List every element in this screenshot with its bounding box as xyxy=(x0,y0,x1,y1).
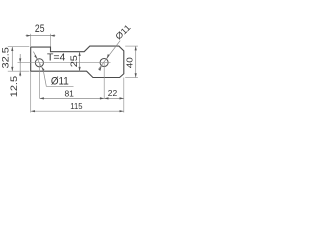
svg-text:81: 81 xyxy=(64,89,74,99)
extension line part right edge down xyxy=(123,78,125,113)
svg-text:T=4: T=4 xyxy=(47,51,66,63)
leader right hole arrow lower xyxy=(99,66,102,71)
extension line right hole down xyxy=(103,63,105,99)
svg-text:40: 40 xyxy=(125,57,134,68)
leader left hole arrow upper xyxy=(34,55,37,59)
svg-text:Ø11: Ø11 xyxy=(51,76,69,88)
extension line part left edge down xyxy=(30,71,32,112)
svg-text:25: 25 xyxy=(70,55,80,68)
hole left xyxy=(35,59,43,67)
dim 81 bottom: dimension line with arrows xyxy=(40,97,105,99)
svg-text:115: 115 xyxy=(70,102,83,111)
dim 25 top: dimension line with outside arrows xyxy=(26,35,56,37)
leader left hole arrow lower xyxy=(42,67,45,71)
extension line left hole down xyxy=(39,63,41,99)
svg-text:12.5: 12.5 xyxy=(9,76,19,98)
dim 115 bottom: dimension line with arrows xyxy=(31,110,124,112)
part outline xyxy=(31,46,124,77)
leader right hole arrow upper xyxy=(107,54,110,59)
svg-text:22: 22 xyxy=(108,88,118,98)
dim 12.5 left: dimension line with outside arrows xyxy=(19,54,21,76)
leader line left hole xyxy=(33,52,73,87)
dim 25 top: extension lines xyxy=(30,34,32,46)
leader line right hole xyxy=(98,41,120,70)
dim 40 right: dimension line with arrows xyxy=(135,46,137,77)
dim 40 right: extension lines xyxy=(125,45,138,47)
dim 32.5 left: dimension line with arrows xyxy=(11,47,13,71)
svg-text:Ø11: Ø11 xyxy=(114,23,133,42)
dim 32.5 left: extension lines xyxy=(8,46,30,48)
hole right xyxy=(100,58,108,66)
svg-text:32.5: 32.5 xyxy=(1,47,11,69)
dim 25 middle: dimension line with arrows xyxy=(79,52,81,71)
centerline through holes xyxy=(18,62,111,64)
dim 22 bottom: dimension line with arrows xyxy=(104,97,124,99)
svg-text:25: 25 xyxy=(35,23,45,35)
